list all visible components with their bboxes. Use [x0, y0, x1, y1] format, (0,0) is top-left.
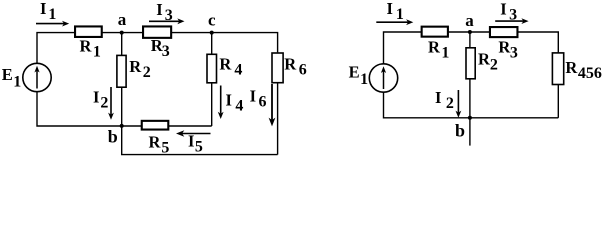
svg-text:I2: I2 [93, 87, 108, 111]
resistor R1 [75, 26, 102, 37]
resistor R2 (right) [466, 48, 475, 79]
wire: top rail from E1 corner to top-right corner, down to R6 [37, 33, 278, 64]
voltage source E1 [23, 63, 51, 91]
svg-text:I3: I3 [500, 0, 517, 24]
wire: node a branch down through R2 to node b [121, 33, 123, 126]
resistor R1 (right) [422, 27, 448, 37]
wire: R456 branch down to bottom rail [557, 52, 559, 118]
wire: node c branch down through R4 to lower-middle rail [211, 33, 213, 126]
wire: node a branch down through R2 to node b and stub below b [469, 32, 471, 146]
node a (junction dot) [120, 31, 124, 35]
svg-text:R5: R5 [149, 132, 170, 156]
wire: E1 bottom to lower-middle rail b..R4 [37, 92, 212, 127]
svg-text:I4: I4 [226, 91, 244, 115]
current arrow I1 [36, 21, 69, 27]
svg-text:R4: R4 [219, 54, 242, 78]
wire: R6 branch down to bottom rail [277, 52, 279, 154]
svg-text:a: a [118, 10, 127, 29]
svg-text:E1: E1 [2, 65, 22, 91]
svg-text:I5: I5 [188, 132, 203, 156]
node b (junction dot) [120, 124, 124, 128]
svg-text:a: a [465, 11, 474, 30]
current arrow I6 [269, 84, 276, 126]
voltage source E1 (right) [369, 64, 397, 92]
resistor R6 [272, 53, 283, 83]
svg-text:E1: E1 [349, 63, 369, 89]
resistor R4 [207, 54, 217, 83]
svg-text:R1: R1 [80, 37, 101, 61]
svg-text:b: b [108, 127, 118, 147]
svg-text:I1: I1 [387, 0, 404, 23]
svg-text:I2: I2 [435, 88, 454, 112]
resistor R2 [117, 55, 126, 87]
resistor R3 [143, 26, 171, 37]
resistor R456 [552, 53, 563, 85]
svg-text:I6: I6 [250, 86, 267, 110]
svg-text:R3: R3 [151, 36, 170, 60]
resistor R5 [142, 121, 169, 130]
svg-text:R3: R3 [498, 38, 517, 62]
current arrow I2 (right) [456, 90, 462, 118]
wire: E1 bottom and bottom rail [384, 92, 559, 118]
resistor R3 (right) [490, 27, 518, 37]
svg-text:I3: I3 [156, 0, 172, 24]
current arrow I4 [218, 86, 224, 120]
current arrow I5 [176, 130, 211, 137]
current arrow I2 [108, 87, 114, 120]
svg-text:b: b [455, 121, 465, 141]
node b (right, junction dot) [468, 116, 472, 120]
svg-text:I1: I1 [40, 0, 56, 23]
wire: node b stub down and bottom rail to R6 branch [122, 126, 278, 155]
svg-text:R456: R456 [565, 58, 601, 82]
node a (right, junction dot) [468, 30, 472, 34]
wire: top rail from E1 corner to top-right corner [384, 32, 559, 64]
svg-text:R1: R1 [428, 38, 449, 62]
current arrow I3 [149, 18, 185, 24]
current arrow I1 (right) [376, 19, 413, 25]
svg-text:R2: R2 [129, 57, 150, 81]
svg-text:c: c [208, 11, 216, 30]
current arrow I3 (right) [495, 18, 528, 24]
node c (junction dot) [210, 31, 214, 35]
svg-text:R6: R6 [284, 55, 306, 79]
svg-text:R2: R2 [478, 49, 498, 73]
